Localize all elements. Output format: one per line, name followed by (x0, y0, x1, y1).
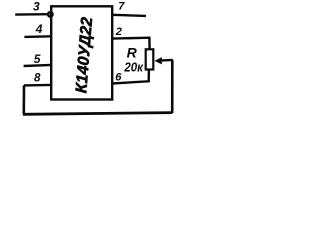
svg-text:R: R (127, 45, 138, 61)
svg-text:4: 4 (35, 22, 43, 36)
svg-text:8: 8 (34, 72, 41, 84)
wire pin 2 to resistor top (112, 38, 150, 50)
svg-text:6: 6 (115, 71, 122, 83)
node junction dot on pin 3 (48, 12, 52, 16)
wire pin 4 (24, 35, 51, 38)
svg-text:20к: 20к (123, 60, 143, 74)
wire resistor bottom to pin 6 (112, 69, 149, 83)
wire left return vertical to pin 8 (22, 85, 25, 114)
svg-text:3: 3 (33, 0, 40, 13)
wiper arrow of potentiometer (160, 59, 173, 62)
svg-text:7: 7 (118, 1, 125, 13)
wire pin 8 (24, 84, 52, 87)
resistor R1 (potentiometer) body (146, 49, 154, 69)
wire pin 3 (15, 13, 49, 16)
wire pin 5 (24, 65, 52, 66)
op-amp IC U1 box (51, 6, 112, 99)
svg-text:5: 5 (34, 52, 41, 66)
wire wiper return right vertical (171, 60, 174, 113)
svg-text:2: 2 (115, 26, 122, 38)
wire pin 7 (112, 15, 146, 16)
wire bottom rail (23, 113, 172, 115)
